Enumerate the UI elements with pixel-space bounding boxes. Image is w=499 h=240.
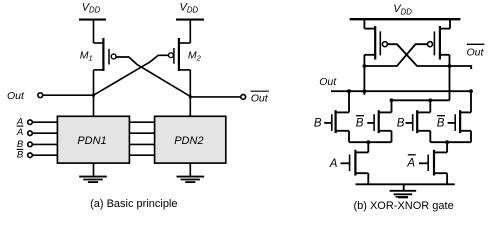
- svg-text:Out: Out: [319, 76, 337, 88]
- node Out / P1 drain: [363, 89, 367, 93]
- VDD rail (b): [350, 18, 461, 20]
- terminal Out (a): [38, 93, 43, 98]
- svg-text:B: B: [397, 117, 405, 129]
- transistor T5 (NMOS, gate A): [341, 142, 369, 184]
- label input Bbar: [17, 149, 24, 160]
- terminal B: [28, 142, 33, 147]
- svg-text:(a) Basic principle: (a) Basic principle: [90, 198, 177, 210]
- label Abar (T6): [406, 155, 415, 170]
- transistor T1 (NMOS, gate B): [324, 91, 349, 142]
- node P2 drain / gate junction: [448, 64, 452, 68]
- node XNOR / T2 drain: [390, 98, 394, 102]
- node XNOR / T3 drain: [428, 98, 432, 102]
- transistor T3 (NMOS, gate B): [406, 100, 431, 142]
- label OutBar (b): [467, 44, 485, 58]
- VDD rail (a, right): [176, 19, 204, 21]
- node Out (a): [92, 94, 95, 97]
- terminal Bbar: [28, 153, 33, 158]
- svg-text:B: B: [314, 117, 322, 129]
- svg-text:B: B: [17, 139, 24, 150]
- wire OutBar tap: [450, 66, 472, 69]
- wire A to PDN1: [32, 121, 57, 123]
- wire XNOR net (T2/T3 drains to P2 drain): [392, 99, 450, 101]
- node A-branch: [366, 140, 370, 144]
- caption (b): [353, 197, 453, 212]
- wire P2 gate cross-couple: [364, 44, 427, 66]
- ground (under PDN1): [79, 177, 107, 183]
- wire M2 drain down to OutBar node: [189, 70, 191, 97]
- wire PDN1-PDN2 line 4: [129, 154, 154, 156]
- node P1 drain / gate junction: [363, 64, 367, 68]
- wire PDN1-PDN2 line 3: [129, 143, 154, 145]
- wire M2 gate cross-couple to M1 drain: [94, 55, 169, 95]
- ground (under PDN2): [177, 177, 205, 183]
- VDD rail (a, left): [79, 19, 106, 21]
- wire PDN1 to ground: [93, 163, 95, 177]
- node Out / T1 drain: [347, 89, 351, 93]
- wire PDN1-PDN2 line 2: [129, 132, 154, 134]
- wire rail to ground symbol: [403, 184, 405, 191]
- transistor T4 (NMOS, gate Bbar): [448, 91, 471, 142]
- wire Abar to PDN1: [32, 132, 57, 134]
- wire Out node to PDN1: [93, 95, 95, 116]
- svg-text:Out: Out: [467, 46, 485, 58]
- terminal OutBar (a): [241, 95, 246, 100]
- wire M1 gate cross-couple to M2 drain: [116, 57, 191, 97]
- terminal Abar: [28, 131, 33, 136]
- node Abar-branch: [445, 140, 449, 144]
- svg-text:B: B: [437, 117, 445, 129]
- wire P1 gate cross-couple: [388, 44, 450, 66]
- wire PDN1-PDN2 line 1: [129, 121, 154, 123]
- node Out / T4 drain: [469, 89, 473, 93]
- wire P2 drain down to XNOR net: [449, 55, 451, 101]
- label input Abar: [16, 126, 24, 138]
- svg-text:Out: Out: [251, 92, 269, 104]
- svg-text:PDN2: PDN2: [174, 135, 203, 147]
- svg-text:A: A: [16, 127, 23, 138]
- transistor M2 (PMOS, mirrored): [169, 38, 191, 71]
- wire M1 drain down to Out node: [93, 70, 95, 95]
- wire VDD to M2 source: [189, 20, 191, 43]
- svg-text:B: B: [17, 150, 24, 161]
- label OutBar (a): [251, 91, 269, 104]
- svg-text:Out: Out: [7, 90, 25, 102]
- wire VDD to M1 source: [93, 20, 95, 43]
- wire T3/T4 common source: [430, 141, 471, 143]
- wire Out net (b): [331, 90, 471, 92]
- wire P1 drain down to Out: [363, 55, 365, 95]
- wire PDN2 to ground: [189, 163, 191, 177]
- ground (b): [390, 191, 417, 198]
- terminal A: [28, 120, 33, 125]
- svg-text:A: A: [329, 158, 338, 170]
- wire B to PDN1: [32, 143, 57, 145]
- node OutBar (a): [189, 95, 192, 98]
- wire OutBar node to PDN2: [189, 97, 191, 116]
- wire OutBar node to terminal: [190, 96, 241, 98]
- transistor T6 (NMOS, gate Abar): [419, 142, 447, 184]
- svg-text:(b) XOR-XNOR gate: (b) XOR-XNOR gate: [353, 200, 453, 212]
- wire Out terminal to node: [43, 94, 94, 96]
- block PDN1: [57, 116, 129, 163]
- wire T1/T2 common source: [349, 141, 392, 143]
- wire ground rail (b): [356, 183, 455, 185]
- transistor T2 (NMOS, gate Bbar): [367, 100, 391, 142]
- svg-text:A: A: [406, 157, 415, 169]
- svg-text:B: B: [356, 117, 364, 129]
- transistor P1 (PMOS left): [364, 19, 387, 59]
- label Bbar (T2): [356, 116, 364, 130]
- wire Bbar to PDN1: [32, 154, 57, 156]
- transistor P2 (PMOS right, mirrored): [428, 19, 451, 59]
- transistor M1 (PMOS): [94, 38, 117, 71]
- svg-text:PDN1: PDN1: [77, 135, 106, 147]
- block PDN2: [155, 116, 226, 163]
- label Bbar (T4): [437, 116, 445, 130]
